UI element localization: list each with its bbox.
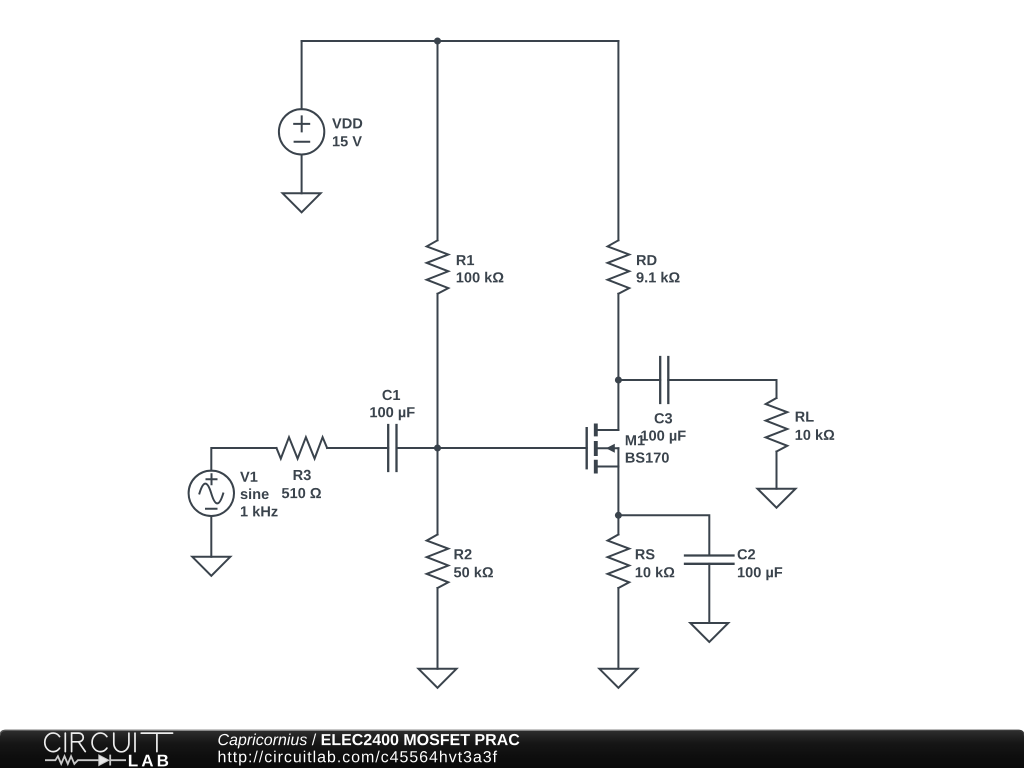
ground (VDD): [283, 193, 321, 212]
logo letter C: [45, 733, 60, 752]
ground (RS): [599, 669, 637, 688]
resistor R2: [427, 535, 449, 589]
footer bar: [0, 730, 1024, 768]
label 100 uF (C3): [641, 430, 685, 443]
node dot (top rail / R1): [434, 38, 441, 45]
transistor M1 channel bars: [594, 424, 598, 474]
label 100 kOhm (R1): [457, 272, 504, 283]
transistor M1 gate bar: [586, 428, 588, 468]
logo diode: [99, 755, 109, 766]
wire RD to drain: [617, 294, 619, 430]
label R2: [455, 549, 472, 559]
wire R3 to C1: [327, 447, 388, 449]
logo diode bar and lead: [110, 755, 126, 766]
ground (RL): [758, 489, 796, 508]
transistor M1 body arrow: [606, 444, 615, 453]
node dot (drain / C3): [615, 377, 622, 384]
wire node to C2: [618, 515, 709, 555]
wire C3 to RL: [668, 380, 776, 398]
footer bar top highlight: [0, 730, 1024, 735]
resistor RS: [608, 535, 630, 589]
label R1: [457, 255, 474, 265]
resistor R3: [277, 437, 328, 458]
label V1: [240, 472, 257, 482]
label RS: [636, 549, 655, 559]
label RD: [637, 255, 657, 265]
wire RS bottom lead: [617, 588, 619, 669]
label 9.1 kOhm (RD): [637, 272, 680, 283]
label 10 kOhm (RL): [796, 429, 835, 440]
capacitor C1: [388, 425, 396, 471]
voltage source VDD: [279, 109, 324, 154]
wire C3 left: [618, 379, 660, 381]
wire R2 top lead: [437, 448, 439, 535]
wire C2 bottom lead: [708, 564, 710, 623]
resistor RL: [766, 398, 788, 452]
wire R1 to gate node: [437, 294, 439, 448]
label RL: [796, 412, 814, 422]
footer title: Capricornius / ELEC2400 MOSFET PRAC: [218, 734, 519, 749]
node dot (source / RS / C2): [615, 512, 622, 519]
logo resistor squiggle: [45, 756, 99, 764]
label VDD: [332, 118, 362, 128]
wire V1 bottom lead: [210, 516, 212, 557]
voltage source V1 sine: [189, 471, 234, 516]
wire R1 top lead: [437, 41, 439, 240]
resistor R1: [427, 240, 449, 293]
label 1 kHz: [241, 506, 278, 517]
wire VDD bottom lead: [301, 155, 303, 194]
label M1: [626, 435, 645, 445]
node dot (gate / C1 / R1 / R2): [434, 445, 441, 452]
wire RS top lead: [617, 515, 619, 534]
wire R2 bottom lead: [437, 588, 439, 669]
footer url text line: [219, 751, 498, 766]
capacitor C3: [660, 357, 668, 403]
wire RL bottom lead: [776, 452, 778, 489]
label 100 uF (C2): [738, 567, 782, 580]
logo letter I: [134, 733, 136, 752]
wire V1 top lead to R3: [211, 448, 276, 471]
label R3: [294, 470, 311, 480]
label C1: [383, 390, 401, 400]
label C2: [738, 549, 756, 559]
wire VDD top lead: [301, 41, 303, 109]
label 100 uF (C1): [370, 407, 414, 420]
logo letter R: [72, 733, 86, 752]
label 510 Ohm (R3): [282, 488, 321, 498]
wire top rail: [302, 40, 619, 42]
logo letter C: [92, 733, 107, 752]
ground (R2): [419, 669, 457, 688]
wire source to RS node: [617, 448, 619, 515]
logo letter U: [114, 733, 129, 752]
ground (C2): [690, 623, 728, 642]
ground (V1): [192, 557, 230, 576]
label BS170: [626, 452, 669, 462]
capacitor C2: [685, 556, 734, 564]
logo letter I: [64, 733, 66, 752]
wire C1 to gate: [397, 447, 587, 449]
label 15 V: [333, 136, 362, 146]
logo text LAB: [129, 755, 168, 767]
resistor RD: [608, 240, 630, 293]
label 50 kOhm (R2): [454, 567, 493, 578]
label sine: [241, 488, 269, 499]
label C3: [655, 413, 673, 423]
transistor M1 leads: [598, 430, 619, 467]
wire RD top lead: [617, 41, 619, 240]
logo letter T: [141, 733, 172, 752]
label 10 kOhm (RS): [636, 567, 675, 578]
